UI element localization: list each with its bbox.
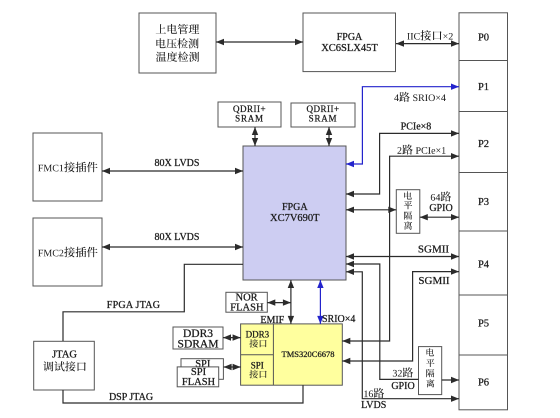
svg-text:JTAG: JTAG <box>52 350 77 361</box>
block U3 FPGA XC6SLX45T <box>303 13 396 72</box>
wire DDR3 SDRAM to DSP <box>223 337 241 339</box>
wire SGMII FPGA to P4 <box>346 256 459 258</box>
memory U5 QDRII+ SRAM #2 <box>291 103 355 127</box>
svg-text:SGMII: SGMII <box>418 275 450 287</box>
processor U12 DSP TMS320C6678 <box>241 324 343 385</box>
memory U4 QDRII+ SRAM #1 <box>218 102 281 127</box>
label 16路 LVDS <box>364 388 384 398</box>
wire FPGA JTAG <box>63 264 243 341</box>
memory U11 SPI FLASH (front) <box>177 367 219 387</box>
svg-text:80X LVDS: 80X LVDS <box>155 158 200 169</box>
svg-text:GPIO: GPIO <box>429 203 452 214</box>
connector J2 FMC2 <box>33 218 102 286</box>
svg-text:FPGA: FPGA <box>337 32 363 43</box>
wire DSP JTAG <box>63 385 303 403</box>
svg-text:FLASH: FLASH <box>182 377 216 388</box>
wire PCIe x8 FPGA to P2 <box>346 133 459 194</box>
svg-text:80X LVDS: 80X LVDS <box>155 232 200 243</box>
block U8 level shifter 电平隔离 #2 <box>419 347 442 395</box>
wire SRIO FPGA to DSP (blue) <box>319 280 321 324</box>
svg-text:DDR3: DDR3 <box>246 329 270 339</box>
wire level-shifter #2 to P6 <box>442 379 459 381</box>
svg-text:SPI: SPI <box>251 360 264 370</box>
wire QDRII+ SRAM #1 to FPGA <box>254 127 256 146</box>
svg-text:P2: P2 <box>478 139 489 150</box>
connector J3 JTAG debug port 调试接口 <box>34 341 95 390</box>
svg-text:P1: P1 <box>478 82 489 93</box>
wire level-shifter #1 to P3 <box>420 216 459 218</box>
svg-text:TMS320C6678: TMS320C6678 <box>282 349 335 359</box>
svg-text:DSP JTAG: DSP JTAG <box>109 392 153 403</box>
svg-text:P0: P0 <box>478 33 489 44</box>
wire FPGA to level-shifter #1 <box>346 209 396 211</box>
wire QDRII+ SRAM #2 to FPGA <box>328 127 330 146</box>
label 32路 GPIO <box>393 367 413 377</box>
wire LVDS FMC2 to FPGA <box>102 246 243 248</box>
wire PCIe x1 DSP to P2 <box>342 156 459 341</box>
svg-text:SDRAM: SDRAM <box>178 338 219 350</box>
connector J1 FMC1 <box>33 133 102 201</box>
wire power-monitor to XC6SLX45T <box>216 41 303 43</box>
wire SPI FLASH to DSP <box>224 366 241 368</box>
svg-text:SRIO×4: SRIO×4 <box>322 314 355 325</box>
wire SRIO FPGA to P1 (blue) <box>346 87 459 164</box>
svg-text:GPIO: GPIO <box>391 381 414 392</box>
wire LVDS FPGA to P6 <box>346 272 459 399</box>
wire LVDS FMC1 to FPGA <box>102 170 243 172</box>
svg-text:PCIe×8: PCIe×8 <box>401 121 432 132</box>
wire IIC bus XC6SLX45T to P0 <box>396 43 459 45</box>
block U7 level shifter 电平隔离 #1 <box>396 190 420 234</box>
svg-text:XC7V690T: XC7V690T <box>270 213 320 224</box>
svg-text:EMIF: EMIF <box>260 315 284 326</box>
block U2 power management/voltage/temperature monitor 上电管理 <box>139 13 216 73</box>
memory U9 DDR3 SDRAM <box>173 327 223 349</box>
memory U10 SPI FLASH (back) <box>181 359 223 380</box>
label IIC接口×2 <box>407 30 452 40</box>
label 4路 SRIO×4 <box>394 92 446 102</box>
wire SGMII DSP to P4 <box>342 272 459 361</box>
svg-text:P6: P6 <box>478 378 489 389</box>
connector column P0-P6 <box>459 13 508 410</box>
label 2路 PCIe×1 <box>397 144 445 154</box>
svg-text:LVDS: LVDS <box>361 400 386 411</box>
memory U6 NOR FLASH <box>226 292 267 312</box>
label 64路 GPIO <box>431 191 451 201</box>
svg-text:SRAM: SRAM <box>309 113 338 123</box>
svg-text:SRAM: SRAM <box>235 113 264 123</box>
wire NOR FLASH to EMIF bus <box>267 302 291 304</box>
svg-text:FPGA JTAG: FPGA JTAG <box>107 300 160 311</box>
wire EMIF FPGA to DSP <box>290 280 292 324</box>
svg-text:P3: P3 <box>478 197 489 208</box>
svg-text:XC6SLX45T: XC6SLX45T <box>321 43 378 54</box>
svg-text:FLASH: FLASH <box>230 303 264 314</box>
svg-text:P4: P4 <box>478 260 490 271</box>
svg-text:P5: P5 <box>478 319 489 330</box>
svg-text:FPGA: FPGA <box>282 202 308 213</box>
wire GPIO FPGA to level-shifter #2 <box>346 264 419 379</box>
svg-text:SGMII: SGMII <box>418 243 450 255</box>
block U1 FPGA XC7V690T <box>243 146 346 280</box>
